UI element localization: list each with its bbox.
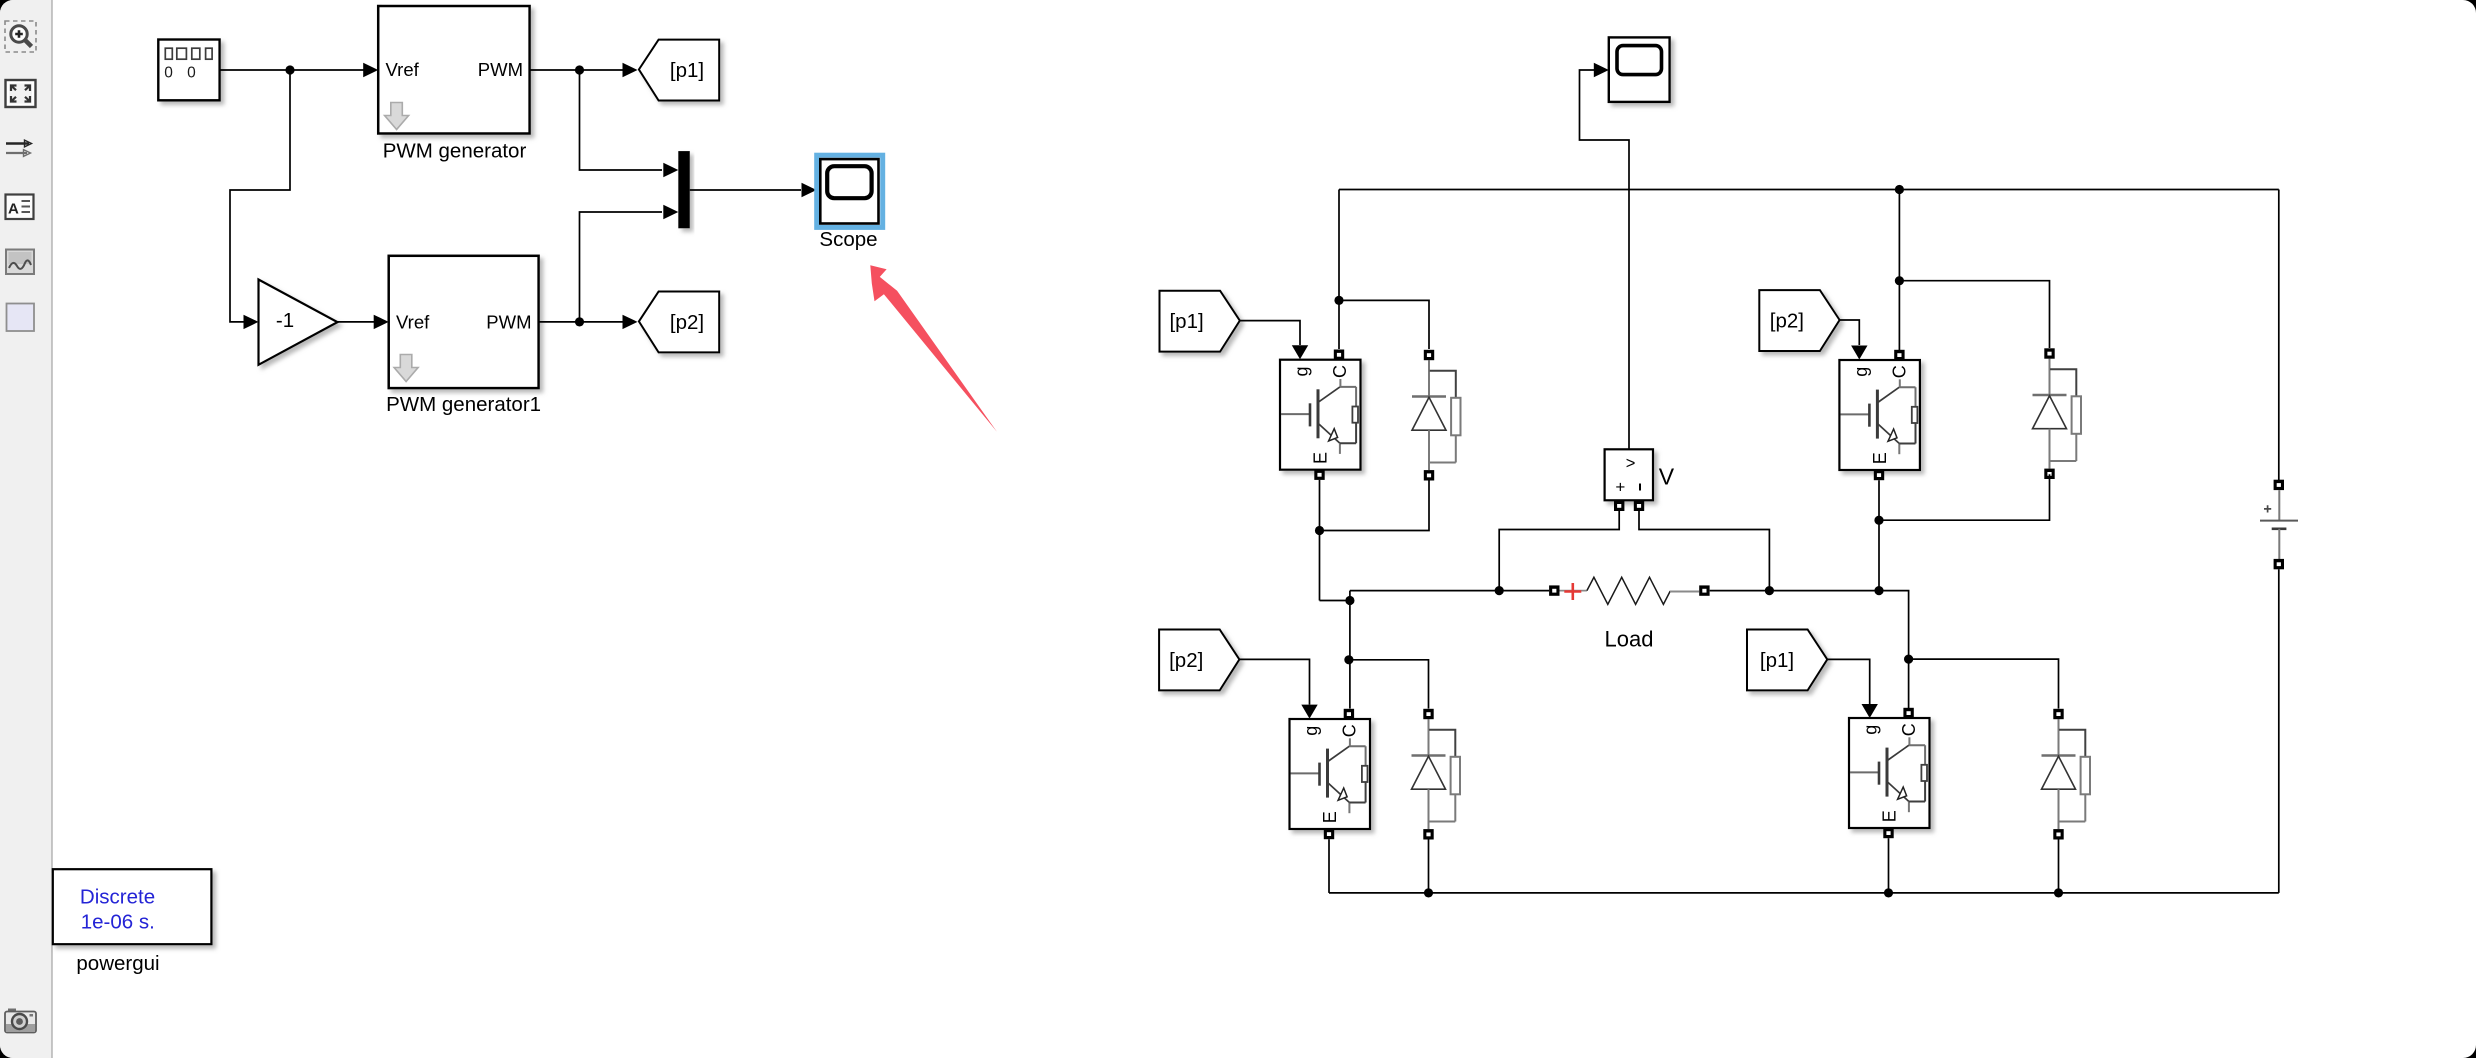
wire: rail down to IGBT1 collector [1338,190,1340,350]
svg-text:PWM generator1: PWM generator1 [386,393,541,416]
svg-text:[p1]: [p1] [670,59,704,82]
PWM generator block U1 [378,6,529,134]
toolbar area icon [7,304,35,332]
goto tag p2 [639,292,719,353]
wire: rail down to IGBT3 collector [1898,190,1900,352]
svg-text:Load: Load [1605,627,1654,652]
IGBT4 collector port [1903,708,1913,718]
wire: from p2 to IGBT2 gate [1239,659,1309,704]
from tag p2 (upper right) [1759,290,1839,351]
node: phase A node [1345,596,1354,605]
DC source riser bottom [2278,569,2280,893]
svg-text:PWM generator: PWM generator [383,140,527,163]
node: emitter/diode junction left [1315,526,1324,535]
wire: phase A down to IGBT2 collector [1349,601,1351,709]
svg-text:PWM: PWM [478,59,523,80]
node on p2 wire [575,317,584,326]
red polarity plus [1564,583,1581,600]
V measurement block [1605,449,1653,500]
IGBT2 collector port [1344,709,1354,719]
IGBT1 collector port [1334,350,1344,360]
diode D3 [2033,348,2082,479]
IGBT1 emitter port [1314,470,1324,480]
wire: jog to load line [1320,591,1350,601]
signal builder block [158,40,219,101]
mux bar [678,151,690,228]
svg-text:Vref: Vref [386,59,420,80]
node on top rail [1895,185,1904,194]
top rail [1339,189,2279,191]
load resistor [1559,577,1699,604]
node: IGBT1 collector branch [1334,296,1343,305]
red annotation arrow [870,265,997,432]
wire: IGBT3 emitter down, diode D3 return [1879,474,2050,590]
wire: V- sense [1639,509,1769,591]
wire: from p1 to IGBT4 gate [1827,659,1869,704]
svg-text:[p2]: [p2] [1770,309,1804,332]
IGBT4 [1849,718,1930,828]
svg-text:[p1]: [p1] [1760,649,1794,672]
from tag p2 (lower left) [1159,630,1239,691]
svg-text:[p2]: [p2] [1169,649,1203,672]
diode D2 [1412,709,1461,840]
wire: IGBT2 emitter to bottom rail [1328,839,1330,893]
wire: branch to diode D4 top [1909,659,2059,708]
node: D4 on bottom rail [2054,888,2063,897]
node: V- tap [1765,586,1774,595]
node: V+ tap [1495,586,1504,595]
wire: IGBT1 emitter down, diode D1 return [1320,480,1430,601]
node on p1 wire [575,65,584,74]
wire: branch to diode D3 top [1899,281,2049,348]
IGBT2 emitter port [1324,829,1334,839]
load line right segment [1710,591,1909,660]
wire: diode D4 to bottom rail [2058,839,2060,893]
toolbar signal-lines icon [6,140,32,156]
wire: V+ sense [1499,509,1619,591]
toolbar fit-to-view icon [6,80,36,107]
svg-text:-1: -1 [276,309,294,332]
wire: branch to diode D1 top [1339,300,1429,349]
wire: diode D2 to bottom rail [1428,839,1430,893]
wire: PWM generator1 out to goto p2 [539,321,623,323]
svg-text:[p1]: [p1] [1169,310,1203,333]
wire: signal builder to PWM generator [220,69,372,71]
wire: junction up to mux input 2 [580,212,663,322]
node: branch junction [285,65,294,74]
DC source riser top [2278,190,2280,481]
svg-text:PWM: PWM [486,311,531,332]
V block ports [1614,501,1624,511]
diode D4 [2042,709,2091,840]
svg-text:Scope: Scope [819,228,877,251]
from tag p1 (upper left) [1160,291,1240,352]
svg-text:Vref: Vref [396,311,430,332]
scope block (selected) [817,155,883,227]
toolbar image icon [6,250,34,275]
node: IGBT4 emitter on bottom rail [1884,888,1893,897]
node: lower left branch [1344,655,1353,664]
wire: mux to scope [690,189,801,191]
IGBT4 emitter port [1883,828,1893,838]
IGBT3 emitter port [1874,470,1884,480]
IGBT2 [1290,719,1371,829]
wire: from p2 to IGBT3 gate [1840,320,1860,345]
wire: junction down to mux input 1 [580,70,663,170]
toolbar zoom icon [5,21,36,52]
arrowhead into PWM generator [363,63,378,77]
svg-text:>: > [1626,455,1636,473]
goto tag p1 [639,40,719,101]
svg-text:1e-06 s.: 1e-06 s. [81,911,155,934]
load line left segment [1350,590,1549,592]
load ports [1549,585,1559,595]
diode D1 [1412,350,1461,481]
svg-text:A: A [8,201,19,218]
node: phase B node [1874,586,1883,595]
PWM generator1 block U2 [389,256,539,388]
svg-text:+: + [1615,478,1625,497]
wire: from p1 to IGBT1 gate [1240,321,1300,345]
wire: V meas to scope2 [1580,70,1630,449]
toolbar camera icon [5,1009,36,1033]
node: lower right branch [1904,655,1913,664]
from tag p1 (lower right) [1747,630,1827,691]
wire: gain out to PWM generator1 [338,321,375,323]
IGBT1 [1280,360,1361,470]
node: D2 on bottom rail [1424,888,1433,897]
svg-text:Discrete: Discrete [80,886,155,909]
svg-text:V: V [1659,464,1675,490]
bottom rail [1329,892,2279,894]
node: emitter/diode junction right [1874,516,1883,525]
IGBT3 collector port [1894,350,1904,360]
svg-text:[p2]: [p2] [670,311,704,334]
node: IGBT3 collector branch [1895,276,1904,285]
svg-text:powergui: powergui [76,952,159,975]
wire: IGBT4 emitter to bottom rail [1888,838,1890,893]
wire: branch down-left to gain input [230,70,290,322]
toolbar annotation icon [6,195,34,220]
IGBT3 [1839,360,1920,470]
scope2 block [1609,37,1670,102]
svg-text:0 0: 0 0 [164,65,201,82]
powergui block [53,869,212,944]
DC source battery [2260,480,2298,570]
wire: PWM generator out to goto p1 [530,69,623,71]
gain block (-1) [259,280,338,365]
wire: branch to diode D2 top [1349,660,1429,709]
